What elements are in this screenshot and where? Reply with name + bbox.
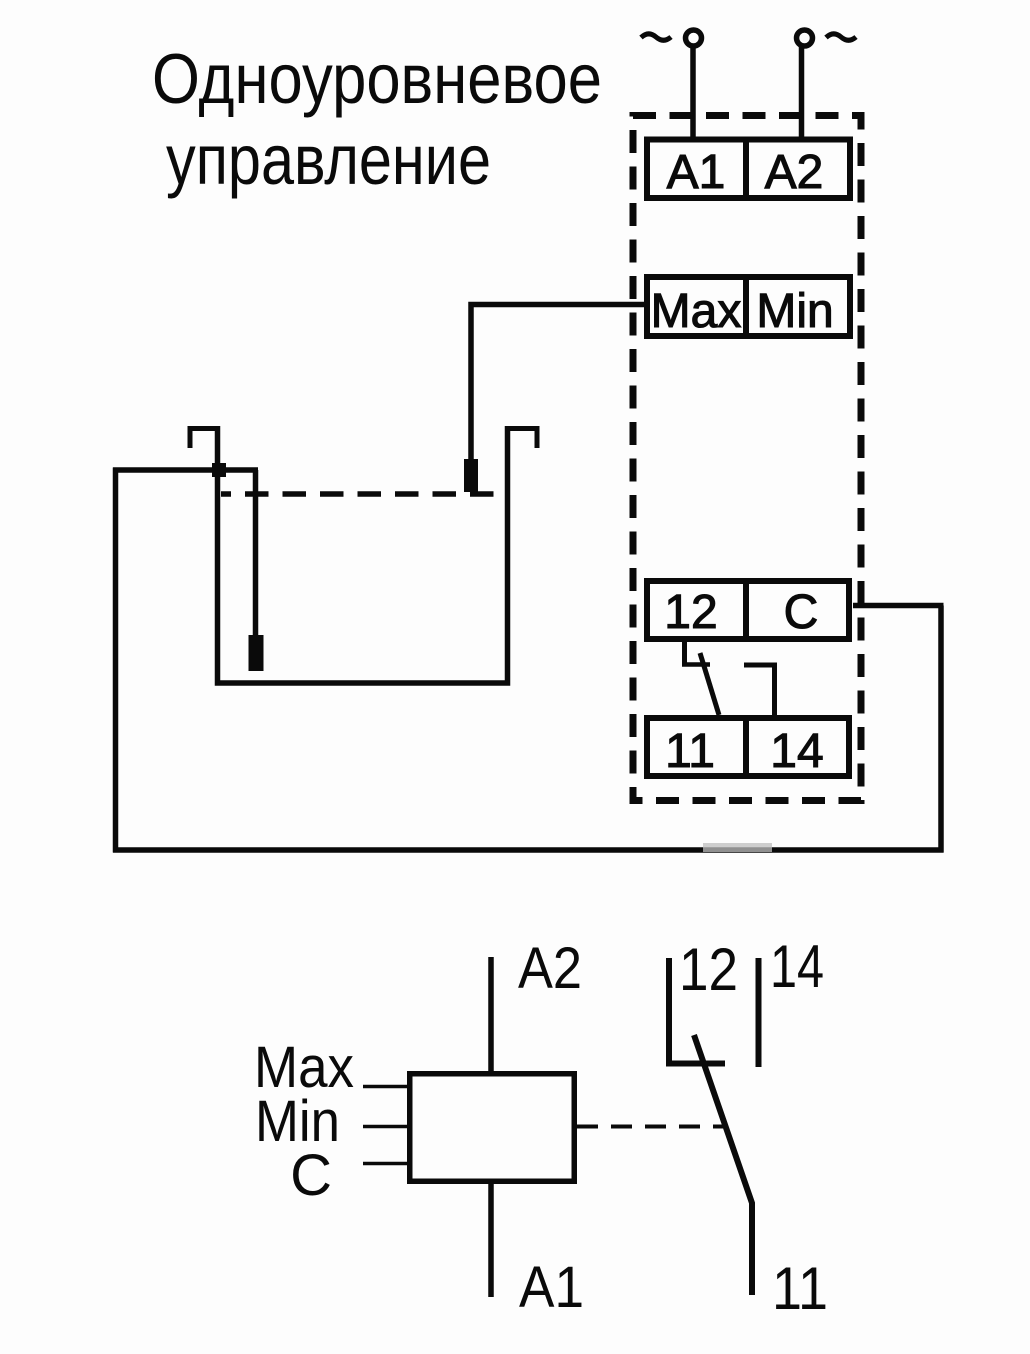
A2 lead bbox=[488, 957, 494, 1073]
svg-text:C: C bbox=[784, 586, 819, 639]
left bus wire down bbox=[113, 468, 119, 853]
terminal box 12|C bbox=[647, 578, 849, 642]
svg-text:14: 14 bbox=[770, 933, 824, 1000]
svg-text:A2: A2 bbox=[518, 936, 582, 1001]
svg-text:12: 12 bbox=[664, 586, 717, 639]
lead down to 14 bbox=[772, 663, 777, 718]
dashed link coil to contact bbox=[577, 1125, 723, 1129]
12 lead with contact seat bbox=[669, 958, 725, 1064]
junction node bbox=[212, 463, 226, 477]
relay dashed outline bbox=[633, 116, 861, 801]
relay coil box bbox=[410, 1074, 575, 1182]
contact blade bbox=[700, 653, 719, 715]
svg-text:Max: Max bbox=[651, 285, 742, 338]
wire from right terminal to A2 bbox=[799, 47, 805, 140]
water level dashed line bbox=[221, 491, 506, 497]
wire from left terminal to A1 bbox=[690, 47, 696, 140]
Max electrode tip bbox=[464, 459, 478, 492]
svg-text:A1: A1 bbox=[667, 146, 726, 199]
wire from left bus to common electrode bbox=[113, 467, 258, 473]
wire from Max terminal to tank electrode bbox=[471, 305, 647, 463]
terminal circle left bbox=[686, 30, 702, 46]
NO contact bar for 14 bbox=[744, 663, 777, 668]
svg-text:A2: A2 bbox=[765, 146, 824, 199]
svg-text:11: 11 bbox=[665, 725, 715, 778]
svg-text:C: C bbox=[290, 1143, 332, 1208]
Min stub bbox=[363, 1125, 409, 1129]
tank left rim hook bbox=[190, 429, 217, 449]
watermark smudge on bottom wire bbox=[703, 843, 772, 852]
tank right rim hook bbox=[507, 429, 537, 449]
svg-text:Одноуровневое: Одноуровневое bbox=[152, 41, 602, 119]
common electrode tip bbox=[249, 635, 264, 671]
terminal box A1|A2 bbox=[647, 137, 850, 202]
14 lead bbox=[756, 958, 762, 1067]
bottom bus wire bbox=[113, 847, 944, 853]
tank walls and bottom bbox=[218, 426, 508, 683]
svg-text:11: 11 bbox=[772, 1255, 828, 1322]
svg-text:12: 12 bbox=[679, 936, 738, 1003]
svg-text:Min: Min bbox=[756, 285, 833, 338]
title: Одноуровневое управление bbox=[152, 41, 602, 200]
C stub bbox=[363, 1162, 409, 1166]
A1 lead bbox=[488, 1182, 494, 1297]
terminal box 11|14 bbox=[647, 715, 849, 779]
svg-text:A1: A1 bbox=[519, 1255, 584, 1320]
contact pivot bar bbox=[682, 662, 710, 667]
AC tilde right bbox=[826, 34, 856, 40]
AC tilde left bbox=[641, 34, 671, 40]
common electrode wire bbox=[253, 470, 259, 638]
contact blade to 11 bbox=[694, 1035, 752, 1295]
right bus wire up to C bbox=[938, 606, 944, 853]
terminal circle right bbox=[797, 30, 813, 46]
terminal box Max|Min bbox=[647, 274, 850, 339]
wire from C terminal to right bus bbox=[853, 603, 944, 609]
relay contact: pivot lead from 12 bbox=[682, 640, 687, 667]
svg-text:управление: управление bbox=[166, 122, 491, 200]
Max stub bbox=[363, 1085, 409, 1089]
svg-text:14: 14 bbox=[770, 725, 823, 778]
